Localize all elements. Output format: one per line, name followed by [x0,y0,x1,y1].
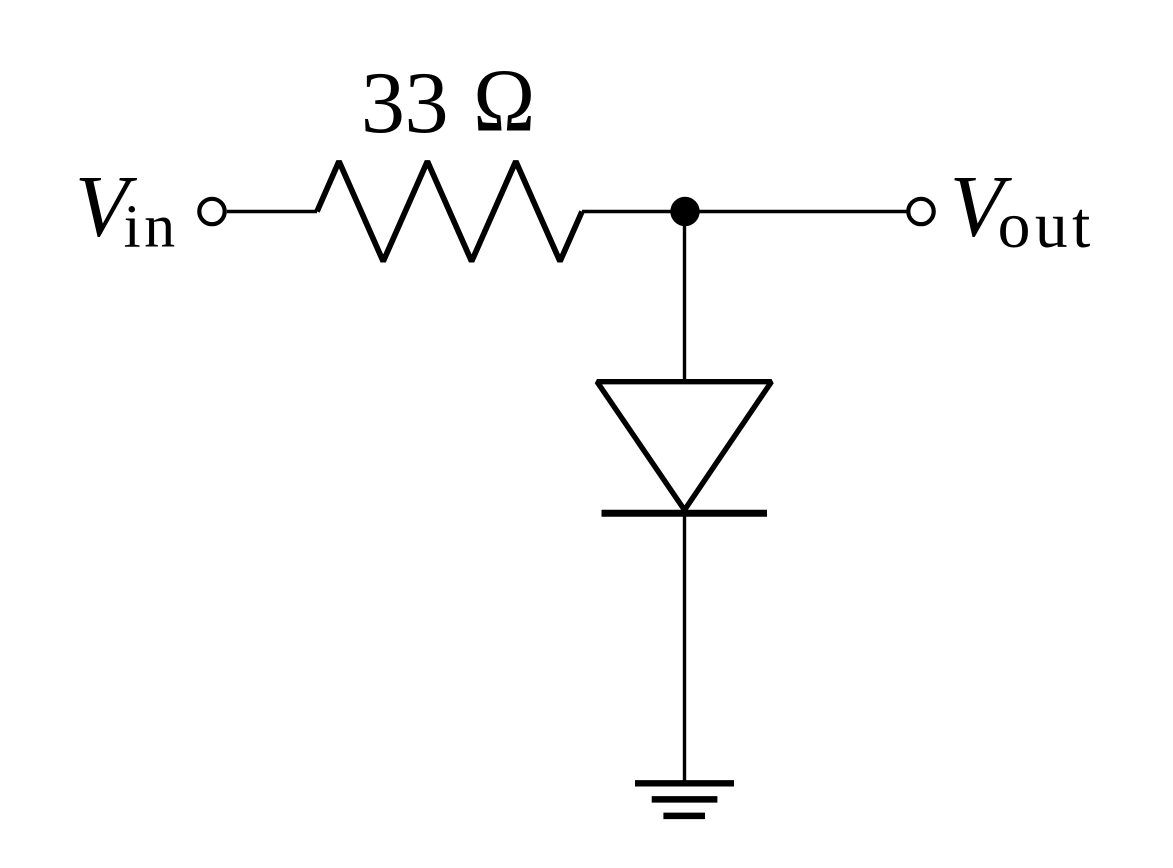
label V_in [75,159,179,261]
wire from V_in terminal to resistor [227,210,317,213]
svg-text:3: 3 [405,54,449,152]
terminal V_in [199,199,224,224]
diode D1 cathode bar [602,510,768,517]
diode D1 (triangle anode) [597,382,772,510]
svg-text:3: 3 [361,54,405,152]
resistor R1 [317,161,582,261]
wire from diode D1 to ground [683,510,686,783]
node A junction dot [670,197,699,226]
wire from resistor to V_out terminal [582,210,908,213]
ground symbol [635,783,734,816]
wire from node A down to diode D1 [683,212,686,383]
svg-text:Ω: Ω [473,51,535,150]
label V_out [950,159,1095,262]
svg-text:out: out [998,190,1095,262]
label 33 Ω (resistor value) [361,51,535,152]
terminal V_out [908,199,933,224]
svg-text:in: in [124,192,179,260]
